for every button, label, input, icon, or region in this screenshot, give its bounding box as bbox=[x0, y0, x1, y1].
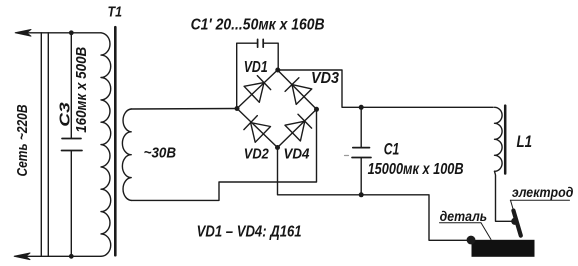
wire mains bottom bbox=[15, 255, 101, 257]
wire L1 bottom lead to electrode bbox=[495, 171, 514, 221]
svg-text:160мк х 500В: 160мк х 500В bbox=[73, 47, 90, 133]
wire secondary top lead to bridge left node bbox=[131, 108, 237, 111]
wire bridge bottom node to negative rail bbox=[278, 148, 470, 241]
mains arrow bottom bbox=[14, 253, 30, 260]
node bridge right bbox=[314, 107, 319, 112]
node electrode blob bbox=[511, 218, 518, 225]
node bridge left bbox=[235, 106, 240, 111]
mains arrow top bbox=[15, 30, 31, 37]
svg-text:деталь: деталь bbox=[440, 208, 488, 224]
node junction C1 bottom bbox=[359, 192, 364, 197]
diode VD1 bbox=[237, 70, 278, 109]
transformer T1 primary winding bbox=[101, 33, 111, 256]
diode VD3 bbox=[278, 70, 317, 109]
node bridge bottom bbox=[275, 145, 280, 150]
diode VD4 bbox=[278, 109, 317, 147]
svg-text:VD1 – VD4: Д161: VD1 – VD4: Д161 bbox=[197, 224, 302, 241]
workpiece plate bbox=[472, 240, 535, 257]
workpiece detail label underline bbox=[440, 222, 482, 224]
node junction C3 top bbox=[69, 30, 74, 35]
capacitor C1 bbox=[352, 148, 371, 158]
capacitor C3 bbox=[62, 139, 83, 151]
wire mains vertical pair left bbox=[40, 33, 42, 256]
capacitor C1' bbox=[258, 39, 264, 47]
svg-text:L1: L1 bbox=[517, 132, 533, 151]
wire C1 lower lead bbox=[360, 158, 362, 195]
svg-text:Сеть ~220В: Сеть ~220В bbox=[14, 104, 31, 176]
transformer T1 secondary winding bbox=[122, 109, 131, 200]
svg-text:C3: C3 bbox=[57, 101, 74, 126]
wire C3 upper lead bbox=[70, 33, 72, 139]
electrode label leader bbox=[511, 200, 514, 211]
wire C1' right leg bbox=[263, 43, 278, 70]
wire C1' left leg bbox=[237, 43, 258, 108]
svg-text:VD3: VD3 bbox=[311, 70, 339, 87]
wire bridge top node to positive rail bbox=[278, 70, 494, 107]
transformer T1 core bbox=[114, 27, 117, 255]
svg-text:T1: T1 bbox=[108, 4, 123, 21]
workpiece connection blob bbox=[467, 236, 476, 245]
node bridge top bbox=[275, 68, 280, 73]
svg-text:VD1: VD1 bbox=[244, 59, 268, 76]
svg-text:~30В: ~30В bbox=[144, 144, 177, 161]
electrode bar bbox=[513, 211, 520, 236]
diode VD2 bbox=[237, 109, 278, 148]
node junction C3 bottom bbox=[69, 254, 74, 259]
electrode label underline bbox=[510, 199, 569, 201]
svg-text:C1′ 20...50мк х 160В: C1′ 20...50мк х 160В bbox=[191, 17, 325, 34]
svg-text:C1: C1 bbox=[384, 140, 400, 159]
inductor L1 winding bbox=[495, 107, 503, 171]
inductor L1 core bbox=[504, 106, 507, 174]
node junction C1 top bbox=[359, 105, 364, 110]
C1 polarity tick bbox=[345, 155, 349, 157]
wire mains top bbox=[16, 32, 101, 34]
wire secondary bottom lead to bridge right node bbox=[131, 109, 316, 200]
svg-text:электрод: электрод bbox=[512, 185, 574, 200]
wire C3 lower lead bbox=[70, 151, 72, 256]
svg-text:15000мк х 100В: 15000мк х 100В bbox=[368, 161, 464, 178]
svg-text:VD2: VD2 bbox=[244, 146, 270, 163]
wire C1 upper lead bbox=[360, 107, 362, 147]
wire mains vertical pair right bbox=[47, 33, 49, 256]
svg-text:VD4: VD4 bbox=[284, 146, 311, 163]
workpiece label leader bbox=[481, 223, 491, 240]
